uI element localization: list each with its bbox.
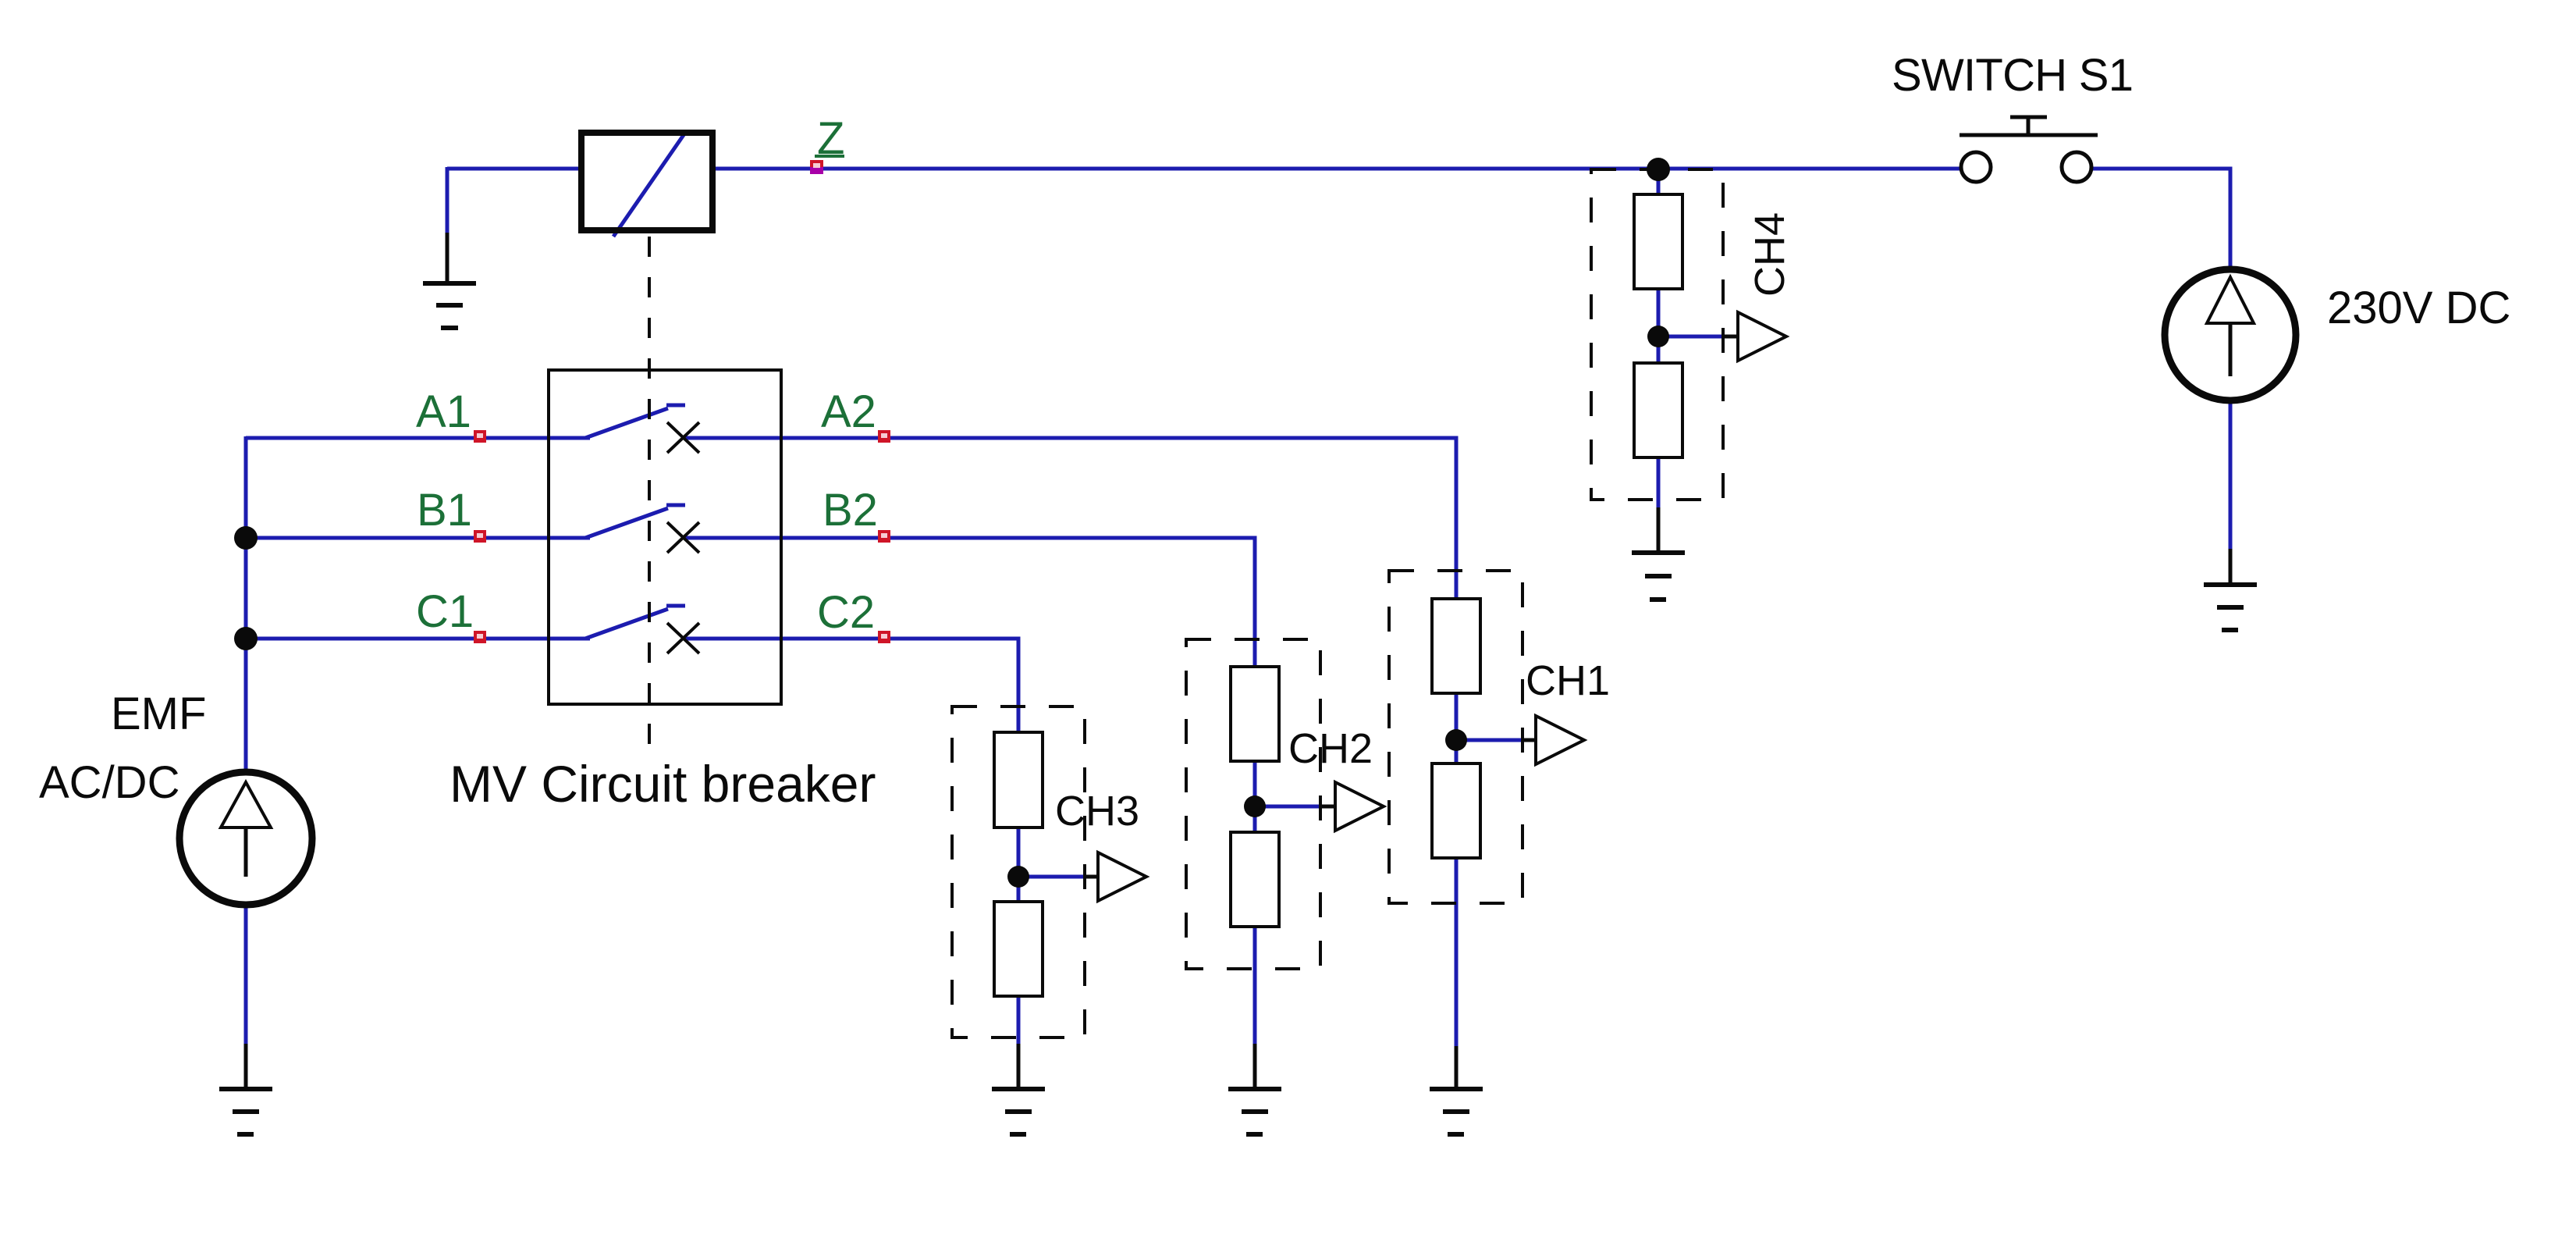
svg-text:B2: B2 — [823, 485, 878, 536]
svg-text:EMF: EMF — [111, 689, 206, 739]
svg-text:230V DC: 230V DC — [2327, 283, 2510, 333]
svg-text:A1: A1 — [416, 386, 471, 437]
svg-text:C2: C2 — [817, 587, 875, 638]
svg-text:CH4: CH4 — [1746, 212, 1793, 297]
svg-text:C1: C1 — [416, 586, 474, 637]
svg-text:SWITCH S1: SWITCH S1 — [1892, 50, 2134, 101]
svg-text:B1: B1 — [417, 485, 472, 536]
svg-text:AC/DC: AC/DC — [39, 757, 179, 808]
svg-text:MV Circuit breaker: MV Circuit breaker — [449, 755, 876, 813]
svg-text:A2: A2 — [821, 386, 876, 437]
svg-text:CH1: CH1 — [1526, 657, 1610, 704]
svg-text:CH2: CH2 — [1288, 725, 1373, 772]
svg-text:CH3: CH3 — [1055, 788, 1139, 835]
